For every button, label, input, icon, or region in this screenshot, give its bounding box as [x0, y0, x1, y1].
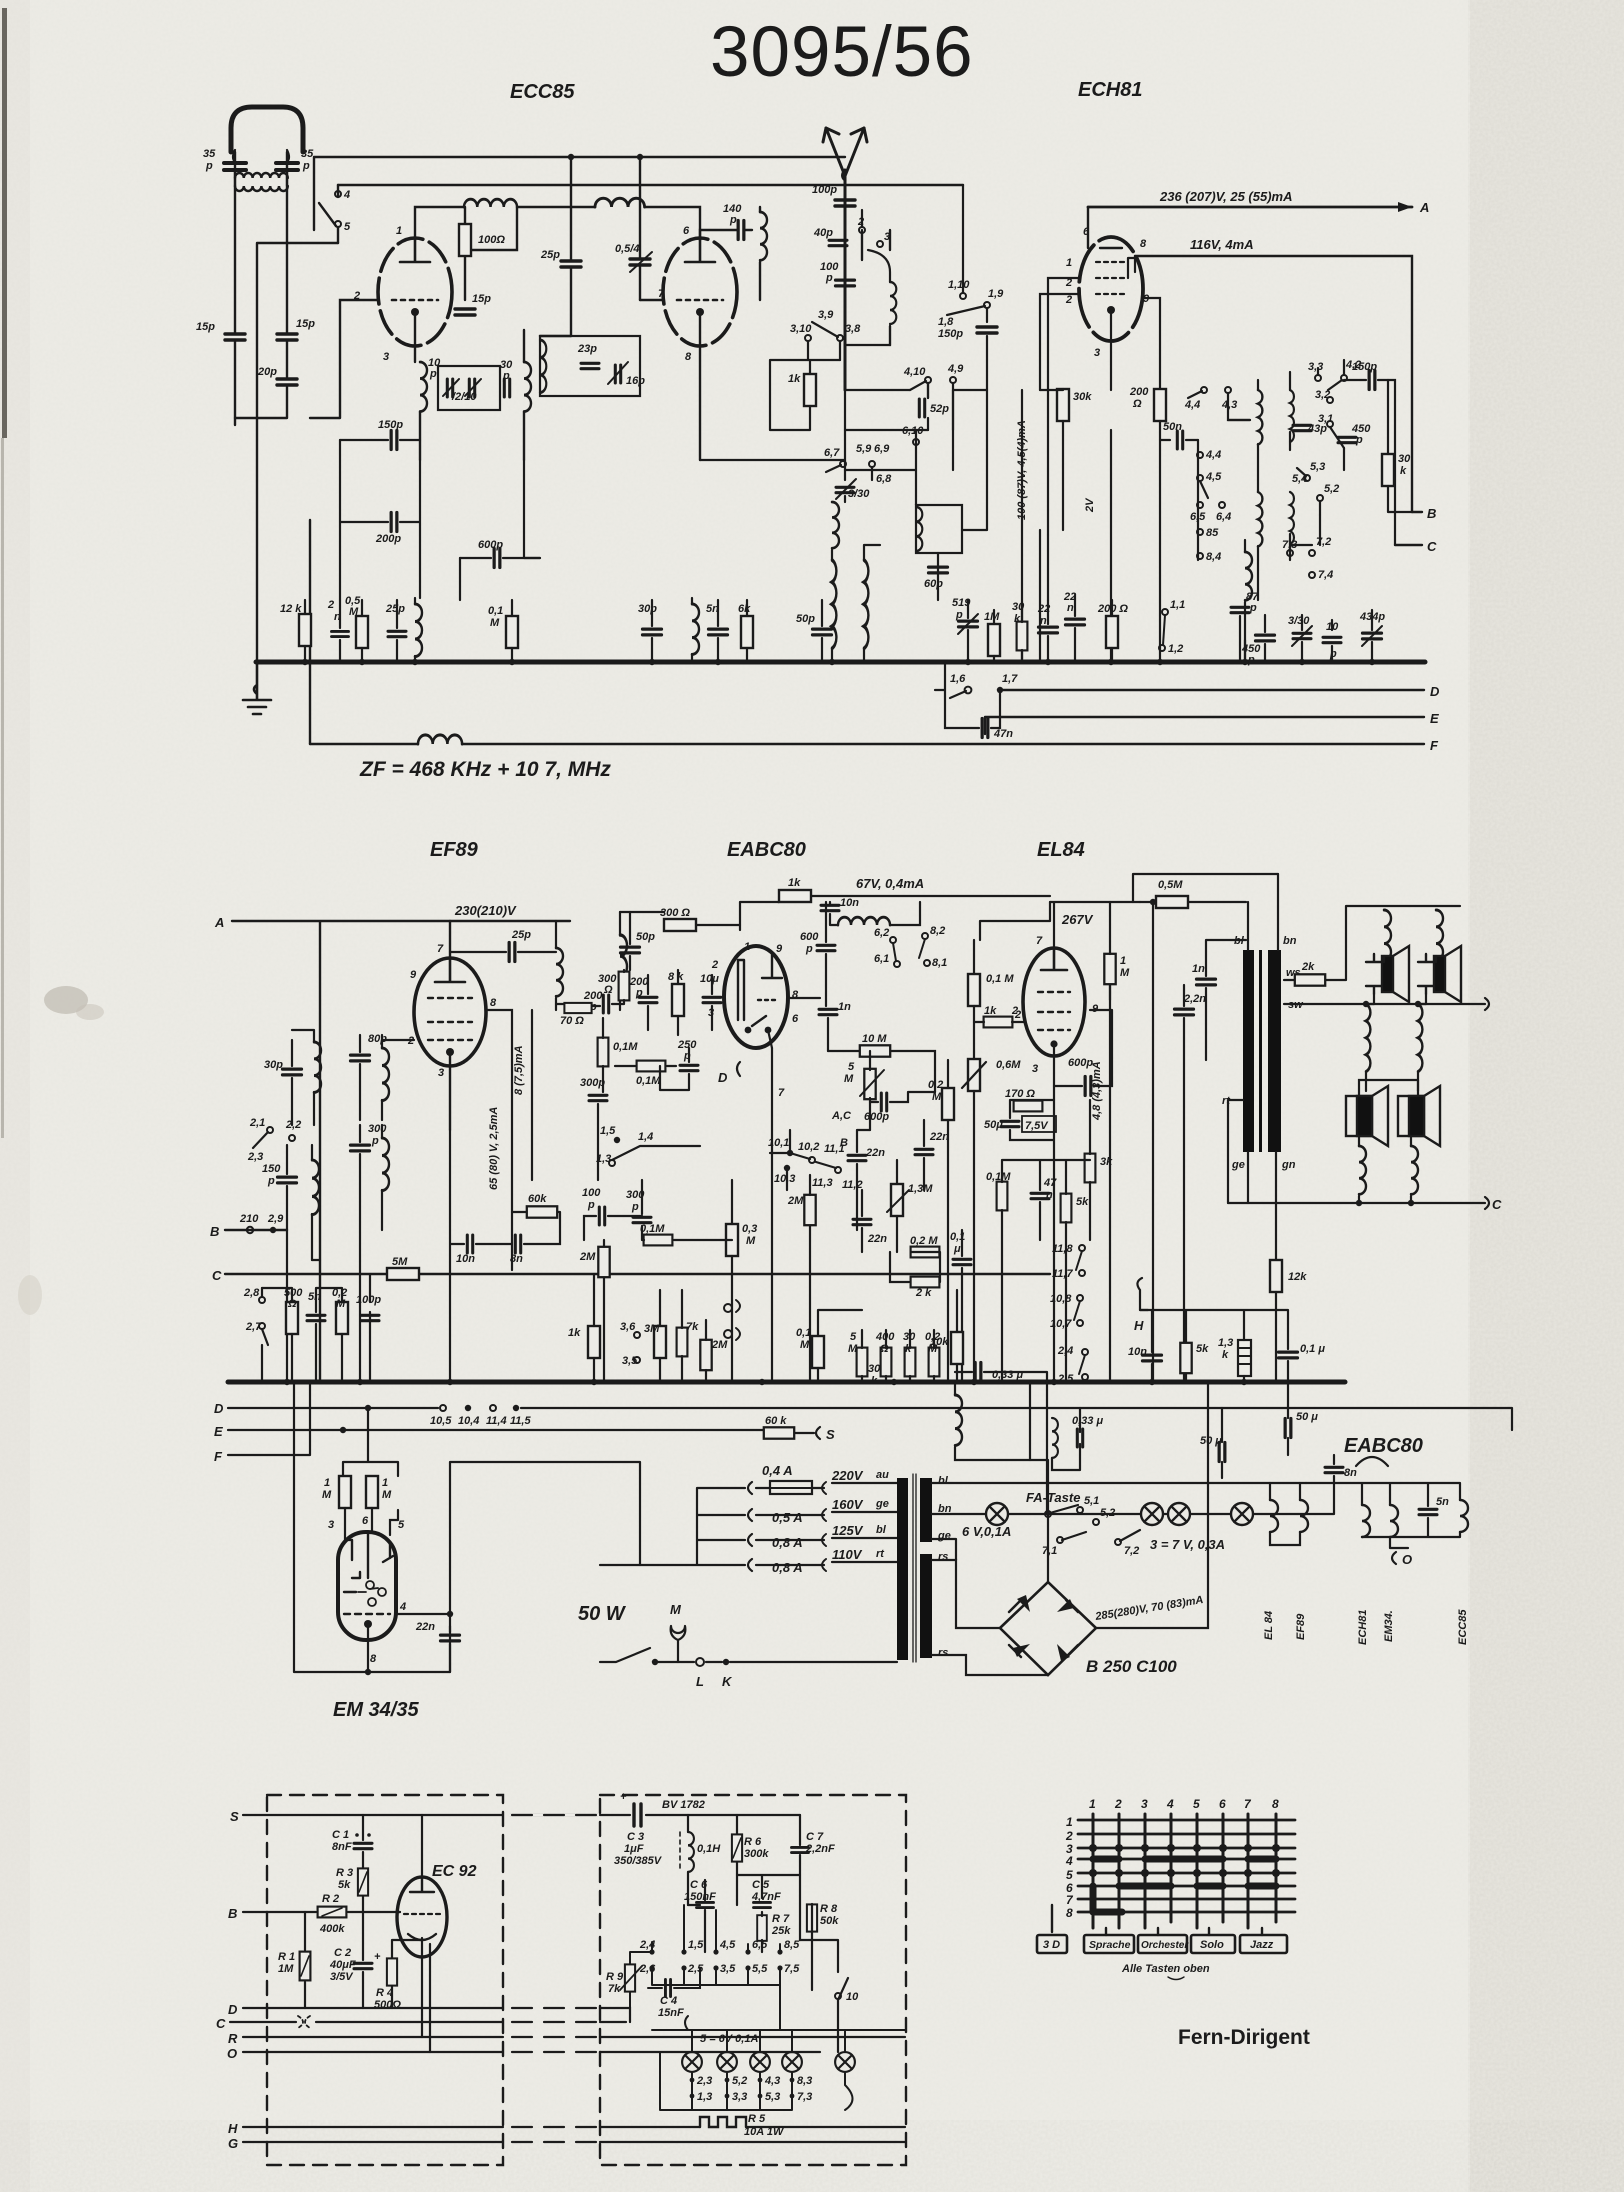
resistor 3k: [1085, 1154, 1096, 1183]
svg-text:0,1M: 0,1M: [640, 1223, 665, 1235]
resistor R1 1M: [300, 1952, 311, 1981]
svg-text:0,1M: 0,1M: [636, 1075, 661, 1087]
svg-text:5,9: 5,9: [856, 443, 872, 455]
svg-text:bl: bl: [1234, 935, 1245, 947]
svg-text:/2/10: /2/10: [451, 391, 477, 403]
svg-text:rs: rs: [938, 1647, 948, 1659]
key buttons: [1052, 1905, 1262, 1935]
svg-text:EC 92: EC 92: [432, 1863, 477, 1880]
coil box: [916, 505, 962, 553]
svg-text:Fern-Dirigent: Fern-Dirigent: [1178, 2026, 1310, 2049]
svg-text:40μF: 40μF: [329, 1959, 356, 1971]
capacitor 20p: [277, 379, 297, 385]
resistor 8k: [672, 984, 684, 1016]
svg-text:11,3: 11,3: [812, 1177, 833, 1189]
IF box 23p/16p: [540, 336, 640, 396]
switches 6,2 6,1 8,2 8,1: [890, 937, 896, 943]
pot R9 7k: [625, 1964, 635, 1991]
svg-text:50p: 50p: [636, 931, 655, 943]
svg-text:1μF: 1μF: [624, 1843, 644, 1855]
svg-text:5,3: 5,3: [765, 2091, 780, 2103]
svg-text:8,3: 8,3: [797, 2075, 812, 2087]
svg-text:10k: 10k: [930, 1336, 949, 1348]
svg-text:40p: 40p: [813, 227, 833, 239]
svg-text:600p: 600p: [1068, 1057, 1093, 1069]
svg-text:5n: 5n: [1436, 1496, 1449, 1508]
capacitor 50p: [621, 947, 640, 953]
svg-text:1: 1: [1089, 1797, 1096, 1811]
svg-text:22n: 22n: [867, 1233, 887, 1245]
svg-text:p: p: [371, 1135, 379, 1147]
svg-text:5,3: 5,3: [1310, 461, 1325, 473]
resistor 0,1M audio2: [812, 1336, 824, 1368]
svg-text:170 Ω: 170 Ω: [1005, 1088, 1035, 1100]
svg-text:1: 1: [1066, 1815, 1073, 1829]
switch 1,6/1,7: [965, 687, 972, 694]
switch 7,3 7,2: [1287, 550, 1293, 556]
junction dots ground bus: [302, 659, 308, 665]
svg-text:6,7: 6,7: [824, 447, 840, 459]
capacitor 5n left: [307, 1315, 325, 1320]
svg-text:9: 9: [776, 943, 783, 955]
wire antenna verticals: [235, 152, 287, 418]
antenna coupling coils: [235, 173, 288, 178]
speaker woofer 1: [1346, 1086, 1388, 1146]
coil tweeter 2: [1436, 910, 1443, 960]
resistor R2 400k: [318, 1907, 347, 1918]
switch 3,3/4,2: [1315, 375, 1321, 381]
svg-text:4,3: 4,3: [764, 2075, 780, 2087]
op: triode V1b ECC85: [663, 238, 737, 346]
capacitor 600p: [494, 549, 500, 568]
svg-text:4,4: 4,4: [1184, 399, 1200, 411]
capacitor 50p: [813, 629, 832, 635]
svg-text:p: p: [302, 160, 310, 172]
svg-text:G: G: [228, 2136, 238, 2151]
svg-text:30k: 30k: [1073, 391, 1092, 403]
resistor 60k under EF89: [527, 1206, 557, 1217]
svg-text:9: 9: [410, 969, 417, 981]
svg-text:C 7: C 7: [806, 1831, 824, 1843]
capacitor 100p left: [361, 1315, 379, 1320]
resistor 500R: [286, 1302, 298, 1334]
svg-text:2M: 2M: [579, 1251, 596, 1263]
svg-text:60p: 60p: [924, 578, 943, 590]
svg-text:5,2: 5,2: [1100, 1507, 1115, 1519]
svg-text:bn: bn: [1283, 935, 1297, 947]
svg-text:1k: 1k: [984, 1005, 997, 1017]
svg-text:ge: ge: [937, 1530, 951, 1542]
svg-text:600p: 600p: [864, 1111, 889, 1123]
capacitor C2 40uF: [354, 1963, 372, 1968]
wire 116V: [1135, 256, 1412, 512]
svg-text:1n: 1n: [838, 1001, 851, 1013]
svg-text:M: M: [490, 617, 500, 629]
resistor 2k h: [911, 1277, 940, 1288]
svg-text:4,10: 4,10: [903, 366, 926, 378]
svg-text:8: 8: [1066, 1906, 1073, 1920]
svg-text:8: 8: [1140, 238, 1147, 250]
svg-text:rt: rt: [876, 1548, 885, 1560]
resistor 1M EL84: [1104, 954, 1115, 984]
svg-text:5: 5: [344, 221, 351, 233]
svg-text:7: 7: [437, 943, 444, 955]
resistor 0,1M v left: [598, 1038, 609, 1067]
capacitor 47n audio: [1031, 1193, 1049, 1198]
svg-text:n: n: [1067, 602, 1074, 614]
svg-text:C: C: [216, 2016, 226, 2031]
heater coils EL84 EF89: [1270, 1500, 1308, 1532]
svg-text:5: 5: [1193, 1797, 1200, 1811]
svg-text:8,2: 8,2: [930, 925, 945, 937]
svg-text:k: k: [1400, 465, 1407, 477]
svg-text:EF89: EF89: [430, 839, 479, 861]
svg-text:116V, 4mA: 116V, 4mA: [1190, 237, 1254, 252]
resistors 5M 400R 30k 0,2M: [857, 1348, 868, 1377]
svg-text:5: 5: [1066, 1868, 1073, 1882]
capacitor 200p under V1a: [391, 513, 397, 532]
svg-text:5,1: 5,1: [1084, 1495, 1099, 1507]
svg-text:3,10: 3,10: [790, 323, 812, 335]
svg-text:70 Ω: 70 Ω: [560, 1015, 584, 1027]
capacitor 80p: [351, 1055, 370, 1061]
resistor 1,3k striped: [1238, 1340, 1251, 1376]
svg-text:μ: μ: [953, 1243, 961, 1255]
svg-text:n: n: [1046, 1189, 1053, 1201]
switch 10: [812, 1940, 848, 2052]
svg-text:2,7: 2,7: [245, 1321, 262, 1333]
bottom row left: resistor 12k: [299, 614, 311, 646]
svg-text:S: S: [826, 1427, 835, 1442]
svg-text:10A 1W: 10A 1W: [744, 2126, 785, 2138]
coil osc: [868, 250, 890, 282]
trimmer 3/30 bottom: [1293, 633, 1311, 638]
wire E: [985, 717, 1424, 734]
svg-text:16p: 16p: [626, 375, 645, 387]
svg-text:1: 1: [382, 1477, 388, 1489]
lamp dial 1: [986, 1503, 1008, 1525]
svg-text:125V: 125V: [832, 1523, 864, 1538]
capacitor 15p anode: [455, 309, 475, 315]
svg-text:0,1: 0,1: [488, 605, 503, 617]
svg-text:0,33 μ: 0,33 μ: [992, 1369, 1023, 1381]
svg-text:Orchester: Orchester: [1141, 1940, 1189, 1951]
coil osc lower: [832, 502, 839, 548]
svg-text:M: M: [322, 1489, 332, 1501]
capacitor 300p det: [633, 1217, 651, 1222]
capacitor 8n heater: [1325, 1467, 1343, 1472]
resistor 2M audio: [700, 1340, 711, 1370]
capacitor 250p: [680, 1065, 698, 1070]
svg-text:M: M: [349, 606, 359, 618]
svg-text:400k: 400k: [319, 1923, 345, 1935]
svg-text:bl: bl: [938, 1475, 949, 1487]
svg-text:2: 2: [1114, 1797, 1122, 1811]
svg-text:0,3: 0,3: [742, 1223, 757, 1235]
capacitor 43p: [1293, 425, 1311, 430]
svg-text:0,1H: 0,1H: [697, 1843, 721, 1855]
svg-text:3,2: 3,2: [1315, 389, 1330, 401]
switch 3,2 3,1: [1327, 397, 1333, 403]
coil det: [838, 917, 890, 925]
svg-text:267V: 267V: [1061, 912, 1094, 927]
svg-text:7: 7: [778, 1087, 785, 1099]
heater coils ECH81 EM34: [1362, 1505, 1398, 1537]
svg-text:B: B: [1427, 506, 1436, 521]
matrix contact dots: [1089, 1844, 1280, 1877]
coil 0,1H: [688, 1832, 694, 1872]
svg-text:6: 6: [362, 1515, 369, 1527]
svg-text:A: A: [214, 915, 224, 930]
svg-text:600: 600: [800, 931, 819, 943]
resistor 30k bottom: [1017, 622, 1028, 651]
capacitor 100p top: [835, 200, 855, 206]
resistor 0,5M: [1156, 896, 1188, 908]
svg-text:7,1: 7,1: [1042, 1545, 1057, 1557]
svg-text:R 5: R 5: [748, 2113, 766, 2125]
capacitor 10u: [703, 997, 721, 1002]
svg-text:3: 3: [328, 1519, 334, 1531]
capacitor 300p mid: [589, 1095, 607, 1100]
svg-text:10,2: 10,2: [798, 1141, 819, 1153]
switch 5,3 5,4 5,2: [1304, 475, 1310, 481]
svg-text:3k: 3k: [1100, 1156, 1113, 1168]
capacitor 35p right: [276, 163, 298, 170]
resistor 1M EM34 b: [366, 1476, 378, 1508]
svg-text:p: p: [1355, 434, 1363, 446]
svg-text:C 1: C 1: [332, 1829, 349, 1841]
resistor 200R bottom: [1106, 616, 1118, 648]
power transformer: [897, 1478, 908, 1660]
svg-text:2: 2: [1065, 1829, 1073, 1843]
capacitor 100p mid: [836, 280, 855, 286]
svg-text:0,6M: 0,6M: [996, 1059, 1021, 1071]
svg-text:1,4: 1,4: [638, 1131, 653, 1143]
svg-text:ECC85: ECC85: [1457, 1609, 1469, 1645]
svg-text:35: 35: [203, 148, 216, 160]
resistor 2M det: [598, 1247, 609, 1277]
svg-text:ECH81: ECH81: [1078, 79, 1142, 101]
resistor R8 50k: [807, 1904, 817, 1931]
svg-text:B: B: [210, 1224, 219, 1239]
resistor 5k: [1061, 1194, 1072, 1223]
svg-text:1: 1: [744, 941, 750, 953]
capacitor 30p bottom: [643, 629, 662, 635]
svg-text:+: +: [374, 1951, 381, 1963]
svg-text:p: p: [502, 370, 510, 382]
switch 3,6 3,5: [634, 1332, 640, 1338]
svg-text:H: H: [228, 2121, 238, 2136]
svg-text:EL84: EL84: [1037, 839, 1085, 861]
svg-text:2M: 2M: [711, 1339, 728, 1351]
svg-text:S: S: [230, 1809, 239, 1824]
svg-text:1n: 1n: [1192, 963, 1205, 975]
svg-text:4: 4: [1065, 1854, 1073, 1868]
resistor 0,2M h: [911, 1247, 940, 1258]
resistor 2M det r: [804, 1195, 815, 1225]
ECH81 plate supply A: [1088, 206, 1412, 209]
wire top bus 1: [314, 157, 845, 230]
capacitor 25p EF89: [509, 943, 515, 962]
svg-text:2: 2: [327, 599, 334, 611]
svg-text:2: 2: [857, 216, 864, 228]
svg-text:p: p: [267, 1175, 275, 1187]
svg-text:4,9: 4,9: [947, 363, 964, 375]
svg-text:8nF: 8nF: [332, 1841, 352, 1853]
svg-text:+: +: [620, 1791, 627, 1803]
svg-text:EABC80: EABC80: [1344, 1435, 1423, 1457]
svg-text:O: O: [1402, 1552, 1412, 1567]
svg-text:p: p: [631, 1201, 639, 1213]
svg-text:1,9: 1,9: [988, 288, 1004, 300]
H terminal: [1137, 1278, 1148, 1310]
wire top bus 2: [338, 184, 963, 186]
svg-text:110V: 110V: [832, 1547, 863, 1562]
svg-text:R 2: R 2: [322, 1893, 339, 1905]
svg-text:2M: 2M: [787, 1195, 804, 1207]
svg-text:52p: 52p: [930, 403, 949, 415]
svg-text:4,8 (4,3)mA: 4,8 (4,3)mA: [1091, 1061, 1103, 1121]
svg-text:10,8: 10,8: [1050, 1293, 1072, 1305]
resistor 10M: [860, 1045, 890, 1056]
trimmer 519p: [959, 621, 978, 627]
svg-text:D: D: [718, 1070, 728, 1085]
svg-text:2: 2: [711, 959, 718, 971]
coil IF3 secondary: [620, 935, 627, 998]
svg-text:L: L: [696, 1674, 704, 1689]
resistor 30k right: [1382, 454, 1394, 486]
svg-text:R 6: R 6: [744, 1836, 762, 1848]
capacitor 200p: [639, 997, 657, 1002]
resistor 200R: [1154, 389, 1166, 421]
coil woofer 1: [1359, 1146, 1366, 1194]
capacitor 100p det: [599, 1207, 604, 1225]
svg-text:K: K: [722, 1674, 733, 1689]
svg-text:0,5M: 0,5M: [1158, 879, 1183, 891]
switch 2,8/2,7: [259, 1297, 265, 1303]
capacitor 40p: [829, 240, 847, 245]
switch 7,4: [1309, 572, 1315, 578]
svg-text:5k: 5k: [1196, 1343, 1209, 1355]
svg-text:1,8: 1,8: [938, 316, 954, 328]
svg-text:6k: 6k: [738, 603, 751, 615]
svg-text:p: p: [805, 943, 813, 955]
svg-text:30: 30: [868, 1363, 881, 1375]
svg-text:6,2: 6,2: [874, 927, 889, 939]
svg-text:3,3: 3,3: [1308, 361, 1323, 373]
coil bottom right: [1245, 552, 1252, 600]
wire EM34 feed: [294, 1382, 640, 1672]
capacitor C4 15nF: [665, 1980, 670, 1997]
capacitor 15p left: [225, 334, 245, 340]
svg-text:85: 85: [1206, 527, 1219, 539]
svg-text:15p: 15p: [296, 318, 315, 330]
svg-text:7,5: 7,5: [784, 1963, 800, 1975]
capacitor 87p: [1231, 607, 1249, 612]
svg-text:25p: 25p: [385, 603, 405, 615]
svg-text:20p: 20p: [257, 366, 277, 378]
capacitor 150p right: [1369, 371, 1375, 390]
capacitor 22n det: [848, 1155, 866, 1160]
svg-text:EF89: EF89: [1295, 1613, 1307, 1640]
svg-text:30: 30: [1398, 453, 1411, 465]
svg-text:6,5: 6,5: [752, 1939, 768, 1951]
svg-text:Sprache: Sprache: [1089, 1939, 1131, 1951]
capacitor 150p under V1a: [391, 431, 397, 450]
svg-text:3,6: 3,6: [620, 1321, 636, 1333]
svg-text:1,6: 1,6: [950, 673, 966, 685]
svg-text:300k: 300k: [744, 1848, 769, 1860]
op: tube EM34/35: [338, 1532, 396, 1640]
svg-text:4: 4: [399, 1601, 406, 1613]
resistor 30k: [1057, 389, 1069, 421]
switch 6,10: [913, 439, 919, 445]
switches 11,8 11,7 10,8 10,7 2,4 2,5: [1074, 1245, 1088, 1380]
svg-text:1k: 1k: [788, 373, 801, 385]
svg-text:p: p: [729, 214, 737, 226]
IF T2 coil lower: [1258, 492, 1262, 547]
svg-text:1,3: 1,3: [596, 1153, 611, 1165]
svg-text:2,2: 2,2: [285, 1119, 301, 1131]
svg-text:3: 3: [1094, 347, 1100, 359]
svg-text:6,9: 6,9: [874, 443, 890, 455]
svg-text:p: p: [1249, 602, 1257, 614]
op: tube ECH81: [1079, 237, 1143, 341]
coil mid top: [595, 198, 645, 207]
svg-text:7,2: 7,2: [1124, 1545, 1139, 1557]
resistor 3M: [654, 1326, 666, 1358]
svg-text:3,9: 3,9: [818, 309, 834, 321]
capacitor 25p: [561, 261, 581, 267]
coil lower2: [1290, 492, 1294, 544]
capacitor 1n out: [1197, 979, 1216, 985]
svg-text:0,8 A: 0,8 A: [772, 1560, 803, 1575]
fuse terminals: [600, 1482, 897, 1571]
svg-text:100Ω: 100Ω: [478, 234, 505, 246]
svg-text:4,3: 4,3: [1221, 399, 1237, 411]
wire plate loop V1a: [415, 207, 595, 300]
svg-text:0,2: 0,2: [928, 1079, 943, 1091]
capacitor 300p left: [351, 1145, 370, 1151]
coil mid 1: [1366, 1004, 1370, 1072]
svg-text:ZF = 468 KHz + 10 7, MHz: ZF = 468 KHz + 10 7, MHz: [359, 758, 611, 781]
capacitor 15p right: [277, 334, 297, 340]
svg-text:C 3: C 3: [627, 1831, 644, 1843]
svg-text:12 k: 12 k: [280, 603, 302, 615]
svg-text:8: 8: [490, 997, 497, 1009]
svg-text:2,4: 2,4: [1057, 1345, 1073, 1357]
svg-text:2,5: 2,5: [687, 1963, 704, 1975]
FM dipole antenna: [231, 107, 303, 152]
IF T2 switches 4,4 4,3: [1201, 387, 1207, 393]
svg-text:ECH81: ECH81: [1357, 1610, 1369, 1645]
svg-text:0,4 A: 0,4 A: [762, 1463, 793, 1478]
svg-text:3: 3: [438, 1067, 444, 1079]
switch 1,1/1,2: [1162, 609, 1168, 615]
capacitor 600p EL84: [1085, 1077, 1091, 1096]
svg-text:2,3: 2,3: [247, 1151, 263, 1163]
capacitor 1n det: [819, 1009, 837, 1014]
coil + capacitor 5n: [692, 604, 699, 654]
svg-text:1,7: 1,7: [1002, 673, 1018, 685]
capacitor 10n b: [467, 1235, 472, 1253]
svg-text:8: 8: [685, 351, 692, 363]
svg-text:10,4: 10,4: [458, 1415, 479, 1427]
svg-text:Jazz: Jazz: [1250, 1939, 1274, 1951]
svg-text:50μ: 50μ: [984, 1119, 1003, 1131]
resistor 100R: [459, 224, 471, 256]
resistor 1M: [988, 624, 1000, 656]
